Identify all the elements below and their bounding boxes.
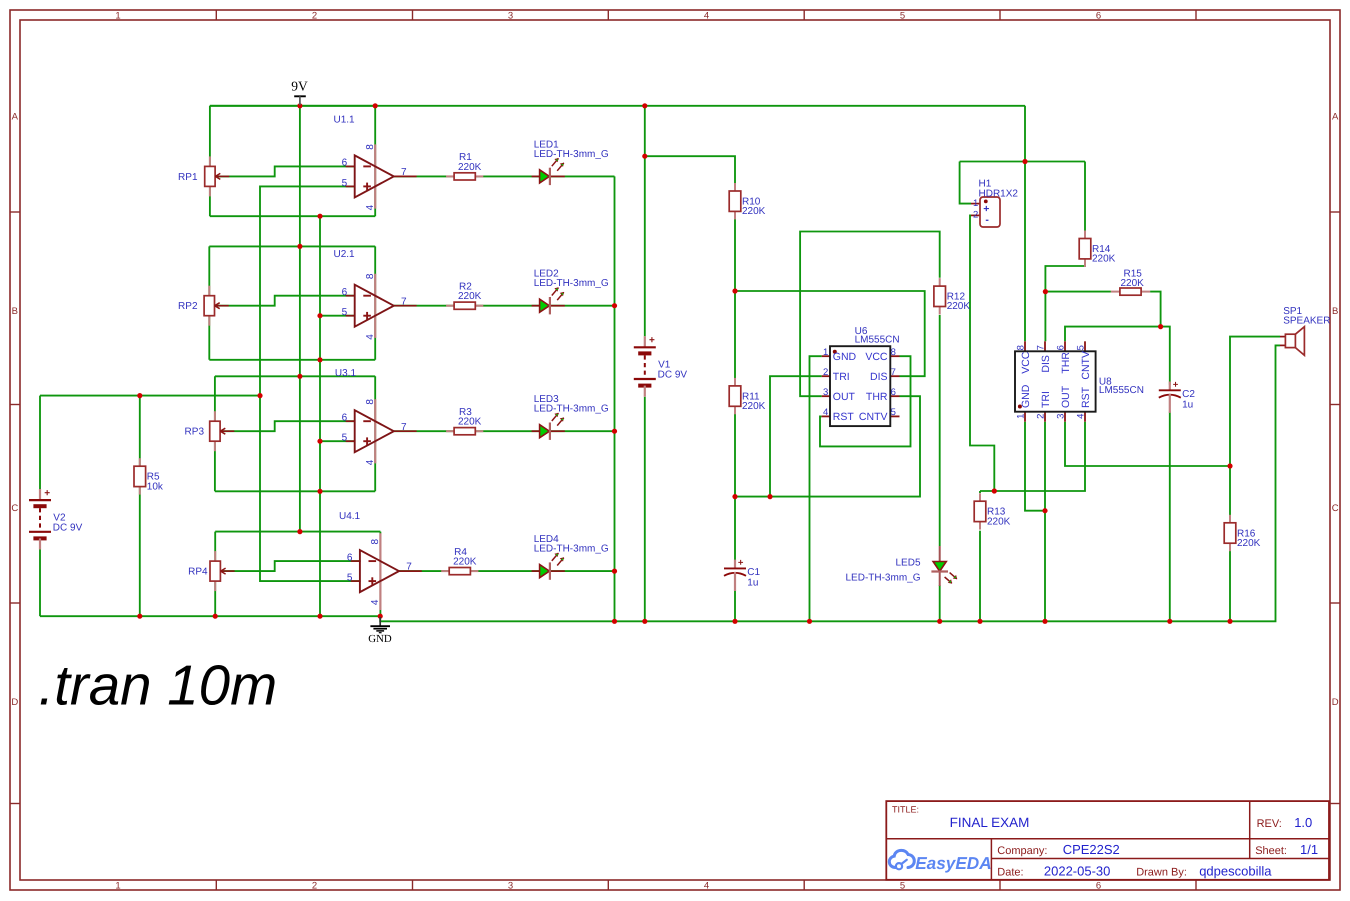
- junction: [642, 103, 647, 108]
- wire channel 3 bottom rail: [215, 490, 375, 492]
- wire R12 to LED5: [939, 315, 941, 546]
- LED LED4: [532, 534, 609, 580]
- svg-text:REV:: REV:: [1257, 818, 1282, 830]
- resistor R12: [934, 278, 970, 314]
- junction: [317, 357, 322, 362]
- wire 9V vertical bus: [299, 106, 301, 532]
- junction: [317, 489, 322, 494]
- svg-text:TRI: TRI: [833, 371, 850, 383]
- wire op-amp U3.1 output to LED bus: [394, 430, 615, 432]
- wire R10-R11 node to U6 DIS pin7: [735, 291, 925, 376]
- resistor R5: [134, 458, 164, 494]
- svg-text:D: D: [1332, 697, 1339, 708]
- junction: [1042, 508, 1047, 513]
- junction: [297, 529, 302, 534]
- svg-text:LED-TH-3mm_G: LED-TH-3mm_G: [534, 149, 609, 160]
- resistor R4: [441, 547, 478, 575]
- wire U6 OUT pin3 loop to R12: [800, 232, 940, 397]
- wire op-amp U4.1 pin8/pin4 vertical: [379, 532, 381, 617]
- svg-text:220K: 220K: [742, 401, 766, 412]
- svg-text:5: 5: [342, 433, 348, 444]
- svg-text:8: 8: [370, 539, 381, 545]
- wire RP2 wiper to op-amp pin6: [215, 296, 355, 306]
- svg-text:8: 8: [365, 273, 376, 279]
- svg-text:6: 6: [1096, 10, 1101, 21]
- potentiometer RP2: [178, 286, 229, 326]
- wire ground reference bus x=320: [319, 216, 321, 616]
- resistor R10: [729, 183, 765, 219]
- svg-text:Drawn By:: Drawn By:: [1136, 867, 1187, 879]
- wire node to C2: [1161, 327, 1170, 385]
- svg-text:B: B: [12, 306, 18, 317]
- resistor R3: [446, 407, 483, 435]
- svg-text:220K: 220K: [1237, 538, 1261, 549]
- svg-text:TITLE:: TITLE:: [892, 805, 919, 815]
- svg-text:OUT: OUT: [1060, 385, 1072, 408]
- svg-text:3: 3: [508, 10, 513, 21]
- LED LED2: [532, 269, 609, 315]
- svg-text:GND: GND: [368, 633, 392, 645]
- svg-text:1: 1: [1016, 414, 1027, 419]
- wire op-amp U2.1 output to LED bus: [394, 305, 615, 307]
- svg-text:.tran 10m: .tran 10m: [39, 654, 278, 717]
- battery V1: [634, 335, 688, 397]
- svg-text:RP3: RP3: [185, 427, 205, 438]
- svg-text:RP2: RP2: [178, 301, 198, 312]
- wire top rail down to U8 VCC pin8: [1024, 106, 1026, 341]
- svg-text:-: -: [985, 214, 989, 226]
- svg-text:THR: THR: [866, 391, 888, 403]
- svg-text:D: D: [11, 697, 18, 708]
- svg-text:4: 4: [365, 204, 376, 210]
- svg-text:8: 8: [891, 347, 896, 358]
- wire op-amp U1.1 output to LED bus: [394, 175, 615, 177]
- junction: [257, 393, 262, 398]
- svg-text:4: 4: [370, 599, 381, 605]
- junction: [1022, 159, 1027, 164]
- power flag 9V: [291, 79, 308, 105]
- svg-text:HDR1X2: HDR1X2: [979, 188, 1019, 199]
- junction: [1227, 619, 1232, 624]
- resistor R2: [446, 282, 483, 310]
- junction: [612, 429, 617, 434]
- wire V2 branch left vertical: [39, 396, 41, 493]
- junction: [732, 494, 737, 499]
- wire R13 node horizontal to U8 RST pin4: [980, 422, 1085, 491]
- IC U8 LM555CN: [1015, 341, 1144, 421]
- svg-text:U1.1: U1.1: [334, 115, 356, 126]
- svg-text:CPE22S2: CPE22S2: [1063, 842, 1120, 857]
- wire RP3 wiper to op-amp pin6: [221, 421, 355, 431]
- junction: [317, 614, 322, 619]
- svg-text:5: 5: [900, 881, 905, 892]
- wire RP1 branch vertical: [209, 106, 211, 216]
- svg-text:TRI: TRI: [1040, 391, 1052, 408]
- junction: [732, 288, 737, 293]
- svg-text:C: C: [11, 503, 18, 514]
- junction: [317, 214, 322, 219]
- junction: [937, 619, 942, 624]
- speaker SP1: [1280, 306, 1330, 356]
- svg-text:CNTV: CNTV: [1080, 351, 1092, 380]
- wire channel 1 bottom rail: [210, 215, 375, 217]
- svg-text:220K: 220K: [947, 301, 971, 312]
- svg-text:LED5: LED5: [895, 558, 920, 569]
- wire R13 to ground rail: [979, 531, 981, 622]
- svg-text:1u: 1u: [1182, 399, 1193, 410]
- wire RP4 wiper to op-amp pin6: [221, 561, 360, 571]
- junction: [1227, 463, 1232, 468]
- wire node to R16: [1229, 466, 1231, 515]
- svg-text:2: 2: [312, 881, 317, 892]
- svg-text:7: 7: [1036, 345, 1047, 350]
- svg-text:B: B: [1332, 306, 1338, 317]
- svg-text:5: 5: [900, 10, 905, 21]
- junction: [1158, 324, 1163, 329]
- svg-text:8: 8: [1016, 345, 1027, 350]
- svg-text:220K: 220K: [742, 206, 766, 217]
- wire node to U8 THR pin6: [1065, 327, 1161, 342]
- wire ground rail left: [40, 615, 380, 617]
- wire V1 to R10 jog: [645, 156, 735, 560]
- junction: [137, 393, 142, 398]
- wire rail down to R14: [1084, 162, 1086, 239]
- svg-text:+: +: [649, 335, 655, 346]
- resistor R16: [1224, 515, 1260, 551]
- svg-text:A: A: [12, 111, 19, 122]
- svg-text:2: 2: [1036, 414, 1047, 419]
- svg-text:220K: 220K: [458, 162, 482, 173]
- svg-text:qdpescobilla: qdpescobilla: [1199, 864, 1272, 879]
- wire C2 to ground rail: [1169, 412, 1171, 622]
- svg-text:5: 5: [342, 178, 348, 189]
- svg-text:+: +: [738, 558, 744, 569]
- svg-text:220K: 220K: [458, 291, 482, 302]
- svg-text:FINAL EXAM: FINAL EXAM: [950, 815, 1030, 830]
- wire U6 RST pin4 to VCC pin8 loop: [820, 356, 911, 446]
- junction: [1042, 619, 1047, 624]
- svg-text:Sheet:: Sheet:: [1255, 845, 1287, 857]
- wire R5 branch vertical: [139, 396, 141, 617]
- wire 9V top power rail: [210, 105, 1025, 107]
- wire LED output bus: [614, 176, 616, 621]
- junction: [612, 569, 617, 574]
- svg-text:8: 8: [365, 144, 376, 150]
- wire ground rail right: [380, 345, 1280, 621]
- title block: [886, 801, 1329, 880]
- wire R14 to U8 DIS pin7: [1045, 259, 1085, 341]
- junction: [767, 494, 772, 499]
- junction: [612, 619, 617, 624]
- svg-text:220K: 220K: [1092, 254, 1116, 265]
- battery V2: [29, 488, 83, 550]
- junction: [317, 439, 322, 444]
- wire DIS node to R15: [1045, 291, 1111, 293]
- svg-text:U4.1: U4.1: [339, 511, 361, 522]
- svg-text:1: 1: [115, 881, 120, 892]
- op-amp U2.1: [342, 273, 417, 340]
- svg-text:7: 7: [401, 167, 407, 178]
- svg-text:6: 6: [891, 387, 896, 398]
- wire V2 positive node horizontal: [40, 395, 260, 397]
- svg-text:1: 1: [973, 198, 978, 209]
- resistor R11: [729, 378, 765, 414]
- svg-text:6: 6: [347, 552, 353, 563]
- capacitor C2: [1159, 380, 1196, 413]
- svg-text:RP4: RP4: [188, 567, 208, 578]
- wire op-amp U3.1 pin8/pin4 vertical: [374, 376, 376, 491]
- wire U6 GND pin1 to ground rail: [810, 356, 822, 621]
- svg-text:LED-TH-3mm_G: LED-TH-3mm_G: [534, 278, 609, 289]
- wire RP2 branch vertical: [208, 246, 210, 359]
- potentiometer RP1: [178, 156, 229, 196]
- svg-text:4: 4: [365, 334, 376, 340]
- wire V1 branch vertical: [644, 106, 646, 336]
- svg-text:U2.1: U2.1: [334, 249, 356, 260]
- wire V+ bus to op-amp pin5 inputs (node from V2+): [260, 186, 361, 581]
- junction: [642, 154, 647, 159]
- wire U8 TRI pin2 to ground rail: [1044, 422, 1046, 622]
- svg-text:6: 6: [342, 287, 348, 298]
- svg-text:5: 5: [347, 573, 353, 584]
- wire U8 OUT pin3 to R16/speaker node: [1065, 422, 1230, 466]
- wire channel 1 top rail: [210, 105, 375, 107]
- junction: [642, 619, 647, 624]
- op-amp U4.1: [347, 533, 422, 610]
- resistor R15: [1111, 268, 1150, 295]
- svg-text:C1: C1: [747, 567, 760, 578]
- svg-text:+: +: [1173, 380, 1179, 391]
- resistor R1: [446, 152, 483, 180]
- wire op-amp U4.1 output to LED bus: [399, 570, 615, 572]
- svg-text:CNTV: CNTV: [859, 411, 888, 423]
- svg-text:THR: THR: [1060, 352, 1072, 374]
- svg-text:7: 7: [401, 422, 407, 433]
- wire pin5 U3.1: [320, 440, 355, 442]
- svg-text:1.0: 1.0: [1294, 815, 1312, 830]
- svg-text:EasyEDA: EasyEDA: [915, 853, 991, 873]
- svg-text:4: 4: [1076, 414, 1087, 419]
- svg-text:1u: 1u: [747, 577, 758, 588]
- svg-text:C: C: [1332, 503, 1339, 514]
- wire H1 pin1 connection: [960, 162, 971, 204]
- svg-text:2: 2: [973, 210, 978, 221]
- LED LED1: [532, 139, 609, 185]
- svg-text:1: 1: [823, 347, 828, 358]
- svg-text:2022-05-30: 2022-05-30: [1044, 864, 1111, 879]
- junction: [977, 619, 982, 624]
- capacitor C1: [724, 558, 761, 591]
- wire pin5 U2.1: [320, 315, 355, 317]
- svg-text:10k: 10k: [147, 481, 164, 492]
- svg-text:LM555CN: LM555CN: [1099, 385, 1144, 396]
- svg-text:4: 4: [365, 459, 376, 465]
- EasyEDA logo: [889, 850, 991, 872]
- svg-text:7: 7: [406, 562, 412, 573]
- IC U6 LM555CN: [822, 326, 900, 426]
- junction: [1167, 619, 1172, 624]
- svg-text:4: 4: [704, 881, 709, 892]
- svg-text:7: 7: [891, 367, 896, 378]
- junction: [612, 303, 617, 308]
- resistor R14: [1079, 231, 1115, 267]
- svg-text:5: 5: [891, 407, 896, 418]
- svg-text:220K: 220K: [458, 417, 482, 428]
- svg-text:U3.1: U3.1: [335, 368, 357, 379]
- wire R15 to THR/C2 node: [1150, 292, 1161, 327]
- op-amp U3.1: [342, 399, 417, 466]
- wire channel 4 top rail: [215, 531, 380, 533]
- svg-text:SPEAKER: SPEAKER: [1283, 315, 1330, 326]
- wire channel 3 top rail: [215, 375, 375, 377]
- wire channel 2 bottom rail: [209, 359, 375, 361]
- wire U8 GND pin1 down: [1025, 422, 1045, 511]
- svg-text:4: 4: [704, 10, 709, 21]
- svg-text:DC 9V: DC 9V: [658, 370, 688, 381]
- svg-text:5: 5: [1076, 345, 1087, 350]
- junction: [1043, 289, 1048, 294]
- svg-text:+: +: [44, 488, 50, 499]
- svg-text:C2: C2: [1182, 389, 1195, 400]
- wire R16 to ground rail: [1229, 551, 1231, 622]
- junction: [137, 614, 142, 619]
- svg-text:7: 7: [401, 296, 407, 307]
- junction: [297, 103, 302, 108]
- svg-text:A: A: [1332, 111, 1339, 122]
- svg-text:DIS: DIS: [1040, 355, 1052, 373]
- resistor R13: [974, 493, 1010, 529]
- svg-text:6: 6: [342, 412, 348, 423]
- header H1 HDR1X2: [971, 179, 1018, 228]
- svg-text:LED-TH-3mm_G: LED-TH-3mm_G: [534, 544, 609, 555]
- svg-text:OUT: OUT: [833, 391, 856, 403]
- svg-text:VCC: VCC: [865, 351, 888, 363]
- junction: [297, 244, 302, 249]
- potentiometer RP4: [188, 551, 234, 591]
- svg-text:4: 4: [823, 407, 828, 418]
- svg-text:9V: 9V: [291, 79, 308, 94]
- junction: [807, 619, 812, 624]
- svg-text:3: 3: [823, 387, 828, 398]
- junction: [213, 614, 218, 619]
- svg-text:5: 5: [342, 307, 348, 318]
- wire op-amp U1.1 pin8/pin4 vertical: [374, 106, 376, 216]
- junction: [373, 103, 378, 108]
- svg-text:220K: 220K: [453, 557, 477, 568]
- wire RP4 branch vertical: [214, 532, 216, 617]
- svg-text:6: 6: [1056, 345, 1067, 350]
- svg-text:6: 6: [342, 158, 348, 169]
- wire U6 TRI pin2 to C1 node: [770, 376, 822, 496]
- potentiometer RP3: [185, 411, 235, 451]
- svg-text:DIS: DIS: [870, 371, 888, 383]
- junction: [992, 488, 997, 493]
- svg-text:RST: RST: [1080, 386, 1092, 408]
- svg-text:Date:: Date:: [997, 867, 1023, 879]
- svg-text:GND: GND: [1020, 384, 1032, 408]
- wire R13 top lead connection: [979, 491, 981, 493]
- svg-text:8: 8: [365, 399, 376, 405]
- svg-text:RP1: RP1: [178, 172, 198, 183]
- wire LED5 to ground rail: [939, 585, 941, 621]
- LED LED3: [532, 394, 609, 440]
- svg-text:6: 6: [1096, 881, 1101, 892]
- wire node up to speaker terminal 1: [1230, 337, 1280, 466]
- wire channel 2 top rail: [209, 245, 375, 247]
- svg-text:1/1: 1/1: [1300, 842, 1318, 857]
- junction: [297, 374, 302, 379]
- svg-text:2: 2: [823, 367, 828, 378]
- LED LED5: [845, 546, 957, 586]
- svg-text:1: 1: [115, 10, 120, 21]
- svg-text:3: 3: [508, 881, 513, 892]
- wire op-amp U2.1 pin8/pin4 vertical: [374, 246, 376, 359]
- svg-text:LED-TH-3mm_G: LED-TH-3mm_G: [534, 404, 609, 415]
- svg-text:3: 3: [1056, 414, 1067, 419]
- wire RP1 wiper to op-amp pin6: [216, 166, 355, 176]
- junction: [732, 619, 737, 624]
- junction: [378, 614, 383, 619]
- svg-text:Company:: Company:: [997, 845, 1047, 857]
- svg-text:LED-TH-3mm_G: LED-TH-3mm_G: [845, 573, 920, 584]
- wire C1/R11 node to U6 THR pin6: [735, 396, 920, 496]
- wire RP3 branch vertical: [214, 376, 216, 491]
- svg-text:GND: GND: [833, 351, 857, 363]
- svg-text:LM555CN: LM555CN: [855, 335, 900, 346]
- wire H1 pin2 to R13 node: [970, 215, 994, 491]
- svg-text:220K: 220K: [1121, 278, 1145, 289]
- svg-text:VCC: VCC: [1020, 351, 1032, 374]
- svg-text:RST: RST: [833, 411, 855, 423]
- wire H1 header rail: [960, 161, 1085, 163]
- ground GND: [368, 617, 392, 645]
- svg-text:220K: 220K: [987, 516, 1011, 527]
- op-amp U1.1: [342, 144, 417, 211]
- junction: [317, 313, 322, 318]
- svg-text:DC 9V: DC 9V: [53, 522, 83, 533]
- svg-text:2: 2: [312, 10, 317, 21]
